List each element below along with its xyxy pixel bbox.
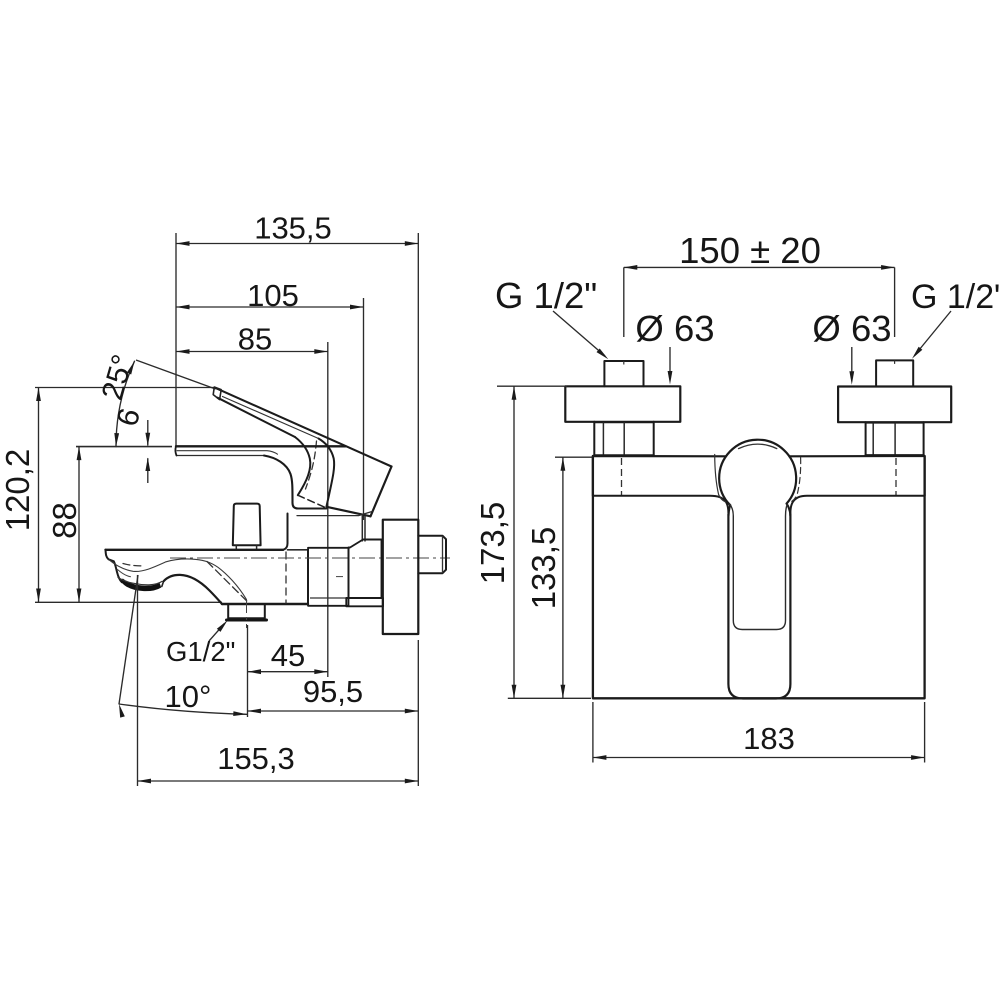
spout barrel outline <box>106 514 309 606</box>
dimension 150 plus-minus 20 <box>624 230 895 337</box>
right escutcheon flange <box>838 387 951 423</box>
svg-text:105: 105 <box>247 278 299 313</box>
neck shelf <box>297 512 372 542</box>
spout belly curve <box>162 575 222 604</box>
dimension 95,5 horizontal <box>248 640 419 786</box>
label G1/2 inch left view <box>166 619 235 667</box>
wall plate side view <box>383 520 419 634</box>
svg-text:45: 45 <box>271 638 305 673</box>
wall supply stub <box>418 536 446 574</box>
dimension 120,2 vertical <box>0 388 222 603</box>
svg-text:133,5: 133,5 <box>525 527 562 610</box>
svg-text:Ø 63: Ø 63 <box>812 308 891 349</box>
dimension 45 horizontal <box>248 625 328 717</box>
lever hidden edges dashed <box>298 441 326 508</box>
left supply nipple G1/2 <box>604 361 643 386</box>
dimension 183 horizontal <box>593 702 925 763</box>
spout aerator <box>118 578 162 591</box>
bottom connection stub G1/2 <box>227 599 267 628</box>
label G 1/2 inch top left <box>495 275 610 361</box>
dimension 6 vertical small <box>111 405 150 483</box>
svg-text:G1/2": G1/2" <box>166 636 235 667</box>
bottom extension line right view <box>508 697 591 699</box>
svg-text:85: 85 <box>238 322 272 357</box>
svg-text:135,5: 135,5 <box>254 211 332 246</box>
barrel center line dash-dot <box>170 558 450 577</box>
union nut <box>346 540 383 607</box>
dimension 85 horizontal <box>176 322 328 678</box>
left locknut <box>594 422 653 456</box>
lever handle side view <box>213 387 391 516</box>
handle dome front view <box>719 440 796 505</box>
spout interior lines <box>109 559 247 600</box>
svg-text:88: 88 <box>46 502 83 539</box>
left escutcheon flange <box>565 386 680 422</box>
label diameter 63 right <box>812 308 891 385</box>
dimension 133,5 vertical <box>525 457 592 698</box>
svg-text:155,3: 155,3 <box>217 741 295 776</box>
diverter knob <box>233 504 261 550</box>
svg-text:183: 183 <box>743 721 795 756</box>
spout tip profile <box>106 550 122 582</box>
dimension 88 vertical <box>46 447 172 602</box>
right supply nipple G1/2 <box>876 360 913 386</box>
right locknut <box>866 422 924 456</box>
svg-text:Ø 63: Ø 63 <box>635 308 714 349</box>
svg-text:150 ± 20: 150 ± 20 <box>679 230 821 271</box>
svg-text:G 1/2": G 1/2" <box>911 278 1000 316</box>
right hidden line dashed <box>895 458 897 495</box>
dimension 155,3 horizontal <box>138 741 419 783</box>
dimension 10 degrees angle <box>117 575 247 786</box>
left hidden line dashed <box>621 458 623 495</box>
svg-text:10°: 10° <box>165 679 212 714</box>
lever front view inner face <box>730 504 788 629</box>
mixer body front view <box>593 456 925 698</box>
dimension 135,5 horizontal (left view top) <box>176 211 418 520</box>
svg-text:G 1/2": G 1/2" <box>495 275 597 316</box>
union spacer ring <box>308 548 349 606</box>
label diameter 63 left <box>635 308 714 385</box>
handle dome hidden arcs <box>715 455 801 503</box>
dimension 105 horizontal <box>176 278 364 520</box>
lever front view outer <box>728 504 790 699</box>
label G 1/2 inch top right <box>910 278 1000 360</box>
body front rounded edge <box>264 456 327 509</box>
dimension 173,5 vertical <box>474 386 567 698</box>
svg-text:173,5: 173,5 <box>474 502 511 585</box>
dimension 25 degrees angle arc <box>96 351 216 447</box>
svg-text:95,5: 95,5 <box>303 674 363 709</box>
svg-text:120,2: 120,2 <box>0 449 36 532</box>
spout hidden lines dashed <box>123 552 286 604</box>
body deck <box>175 446 345 455</box>
